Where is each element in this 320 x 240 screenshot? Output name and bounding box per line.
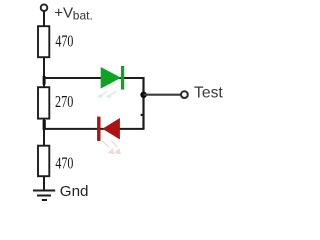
LED D1 green <box>101 66 125 90</box>
wire R3 to ground <box>43 176 45 190</box>
terminal Test <box>181 91 188 98</box>
resistor R3 <box>38 146 49 177</box>
svg-text:270: 270 <box>55 92 73 111</box>
svg-text:Gnd: Gnd <box>60 183 89 200</box>
terminal +Vbat <box>41 4 48 11</box>
right rail wire <box>142 77 144 130</box>
rail tick <box>141 114 144 116</box>
svg-text:470: 470 <box>55 32 73 51</box>
LED D2 light arrows <box>102 141 120 154</box>
wire node to Test terminal <box>144 94 181 96</box>
node B junction <box>43 120 46 130</box>
ground <box>33 191 55 201</box>
node A junction <box>43 76 46 85</box>
LED D2 red <box>97 117 120 141</box>
wire R2 to R3 <box>43 119 45 146</box>
svg-text:470: 470 <box>55 154 73 173</box>
svg-text:Test: Test <box>194 85 223 102</box>
svg-text:+V: +V <box>54 4 74 21</box>
wire terminal to R1 <box>43 11 45 26</box>
wire node A to green LED anode <box>44 77 144 79</box>
junction node dot <box>140 92 147 99</box>
svg-text:bat.: bat. <box>73 9 93 23</box>
resistor R2 <box>38 87 49 118</box>
resistor R1 <box>38 26 49 57</box>
wire node B to red LED cathode <box>44 128 144 130</box>
LED D1 light arrows <box>98 91 116 97</box>
wire R1 to R2 <box>43 58 45 88</box>
